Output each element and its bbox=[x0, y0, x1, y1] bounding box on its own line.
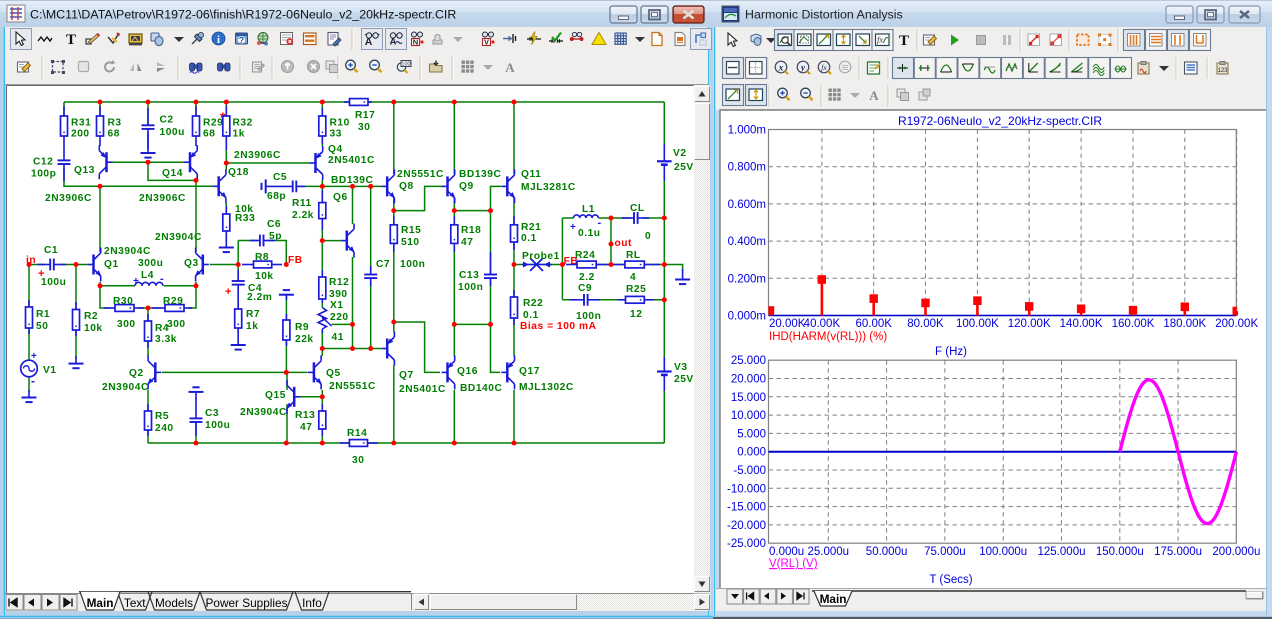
value R24 2.2 bbox=[579, 272, 595, 283]
svg-text:60.00K: 60.00K bbox=[855, 318, 892, 330]
svg-text:Q4: Q4 bbox=[328, 144, 343, 155]
transient x axis title bbox=[929, 574, 972, 586]
wire R22 top bbox=[513, 265, 515, 298]
svg-text:C13: C13 bbox=[459, 270, 479, 281]
wire rail to Q11 collector bbox=[513, 102, 515, 174]
svg-text:22k: 22k bbox=[295, 334, 314, 345]
svg-text:R32: R32 bbox=[233, 118, 253, 129]
svg-text:390: 390 bbox=[329, 289, 348, 300]
resistor R30 bbox=[104, 305, 144, 312]
polarity minus V1 bbox=[31, 374, 36, 388]
svg-text:-: - bbox=[598, 217, 602, 229]
svg-text:175.000u: 175.000u bbox=[1154, 546, 1202, 558]
resistor R14 bbox=[340, 440, 378, 447]
node FB output bbox=[560, 262, 565, 267]
svg-text:F (Hz): F (Hz) bbox=[935, 346, 967, 358]
wire ground column to V3 bbox=[663, 300, 665, 372]
node FB input bbox=[284, 262, 289, 267]
harmonic plot y labels bbox=[728, 125, 766, 323]
label R12 bbox=[329, 277, 349, 288]
value C6 5p bbox=[269, 231, 282, 242]
wire top positive rail right segment bbox=[368, 101, 664, 103]
svg-text:V2: V2 bbox=[673, 148, 687, 159]
ground below R33 bbox=[219, 239, 234, 252]
label C1 bbox=[44, 245, 58, 256]
wire out node to RL bbox=[611, 264, 625, 266]
svg-text:0.000: 0.000 bbox=[737, 447, 766, 459]
wire bottom rail left segment bbox=[148, 442, 349, 444]
resistor R18 bbox=[451, 216, 458, 252]
harmonic plot frame and grid bbox=[769, 130, 1237, 316]
wire Q7 emitter bbox=[393, 322, 395, 332]
label Q6 bbox=[333, 192, 348, 203]
svg-text:Bias = 100 mA: Bias = 100 mA bbox=[520, 321, 597, 332]
left window frame bbox=[0, 0, 713, 619]
value R4 3.3k bbox=[155, 334, 177, 345]
svg-text:C7: C7 bbox=[376, 259, 390, 270]
wire Q3 base to node bbox=[210, 264, 239, 266]
wire V1 to ground bbox=[28, 377, 30, 393]
label C2 bbox=[160, 115, 174, 126]
wire Q2 emitter to R5 bbox=[147, 390, 149, 411]
wire Q6 collector bbox=[352, 186, 354, 224]
text Bias = 100 mA bbox=[520, 321, 597, 332]
svg-text:C9: C9 bbox=[578, 283, 592, 294]
svg-text:Q9: Q9 bbox=[459, 181, 474, 192]
node R15-bottom bbox=[391, 320, 396, 325]
label Q17 bbox=[519, 366, 540, 377]
svg-text:123: 123 bbox=[1217, 68, 1228, 74]
transistor Q4 pnp bbox=[310, 146, 323, 180]
svg-text:100n: 100n bbox=[400, 259, 425, 270]
node ground-mid bbox=[662, 262, 667, 267]
svg-text:V1: V1 bbox=[43, 365, 57, 376]
wire node to R15 bbox=[393, 211, 395, 225]
svg-text:100u: 100u bbox=[205, 420, 230, 431]
node Q6-emitter-b bbox=[350, 346, 355, 351]
svg-text:100n: 100n bbox=[458, 282, 483, 293]
value V2 25V bbox=[674, 162, 694, 173]
left window vertical scrollbar bbox=[694, 85, 710, 593]
node rail-Q17 bbox=[512, 441, 517, 446]
resistor R33 bbox=[223, 206, 230, 240]
svg-text:fx: fx bbox=[821, 63, 827, 72]
svg-text:240: 240 bbox=[155, 423, 174, 434]
ground right of RL bbox=[675, 269, 690, 284]
value R11 2.2k bbox=[292, 210, 314, 221]
node L4-right bbox=[194, 283, 199, 288]
svg-text:-5.000: -5.000 bbox=[733, 465, 766, 477]
svg-text:0.600m: 0.600m bbox=[728, 199, 766, 211]
wire R25 to ground column bbox=[644, 299, 664, 301]
svg-text:Q7: Q7 bbox=[399, 370, 414, 381]
capacitor C3 bbox=[190, 398, 203, 436]
ground below C2 bbox=[141, 133, 156, 158]
svg-text:0.000m: 0.000m bbox=[728, 311, 766, 323]
wire Q18 collector stub bbox=[225, 163, 227, 170]
svg-text:510: 510 bbox=[401, 237, 420, 248]
wire R30 to R29 mid bbox=[138, 307, 161, 309]
label C9 bbox=[578, 283, 592, 294]
svg-text:100.00K: 100.00K bbox=[956, 318, 999, 330]
node ground-C9row bbox=[662, 297, 667, 302]
label CL bbox=[630, 203, 645, 214]
harmonic x axis title bbox=[935, 346, 967, 358]
wire R12 top link bbox=[321, 241, 323, 277]
svg-text:-15.000: -15.000 bbox=[727, 502, 766, 514]
svg-text:T: T bbox=[66, 32, 76, 48]
polarity plus C1 bbox=[38, 268, 45, 280]
value C4 2.2m bbox=[247, 292, 272, 303]
label Q16 bbox=[457, 366, 478, 377]
wire C4 to R7 bbox=[237, 285, 239, 309]
svg-text:T (Secs): T (Secs) bbox=[929, 574, 972, 586]
svg-text:2.2: 2.2 bbox=[579, 272, 595, 283]
wire top positive rail left segment bbox=[64, 101, 350, 103]
resistor R4 bbox=[145, 314, 152, 348]
label Probe1 bbox=[522, 251, 560, 262]
svg-text:100p: 100p bbox=[31, 169, 56, 180]
wire C6 left down to R8 node bbox=[237, 241, 239, 265]
value X1 41 bbox=[332, 332, 344, 343]
model Q3 2N3904C bbox=[155, 232, 202, 243]
svg-text:68: 68 bbox=[203, 129, 215, 140]
node rail-R13 bbox=[320, 441, 325, 446]
svg-text:Q6: Q6 bbox=[333, 192, 348, 203]
harmonic plot x axis line bbox=[769, 315, 1237, 317]
label X1 bbox=[330, 300, 344, 311]
resistor R31 bbox=[61, 106, 68, 150]
left window caption buttons bbox=[610, 6, 704, 23]
svg-text:Main: Main bbox=[87, 596, 114, 610]
inductor L1 bbox=[574, 215, 599, 218]
marker red asterisk bbox=[220, 109, 226, 125]
svg-text:R3: R3 bbox=[108, 118, 122, 129]
svg-text:R33: R33 bbox=[235, 213, 255, 224]
svg-text:R15: R15 bbox=[401, 225, 421, 236]
svg-text:200: 200 bbox=[71, 129, 90, 140]
svg-text:C1: C1 bbox=[44, 245, 58, 256]
svg-text:2N3906C: 2N3906C bbox=[45, 193, 92, 204]
wire Q9 emitter node to Q11 base link bbox=[454, 186, 501, 210]
svg-text:R21: R21 bbox=[521, 222, 541, 233]
node out bbox=[609, 242, 614, 247]
probe Probe1 bbox=[522, 258, 552, 271]
label V1 bbox=[43, 365, 57, 376]
capacitor C9 bbox=[570, 294, 600, 306]
resistor RL bbox=[613, 261, 660, 268]
label V2 bbox=[673, 148, 687, 159]
svg-text:Power Supplies: Power Supplies bbox=[206, 596, 288, 610]
wire C13 node down to Q17 base bbox=[491, 324, 501, 372]
svg-text:160.00K: 160.00K bbox=[1112, 318, 1155, 330]
svg-text:-: - bbox=[160, 273, 164, 285]
svg-text:+: + bbox=[225, 286, 232, 298]
wire Q11 emitter to R21 bbox=[513, 198, 515, 225]
svg-text:R4: R4 bbox=[155, 323, 169, 334]
resistor R17 bbox=[344, 99, 372, 106]
transistor Q15 npn mirrored bbox=[286, 380, 300, 414]
svg-text:A: A bbox=[505, 60, 515, 75]
svg-text:Info: Info bbox=[302, 596, 322, 610]
wire X1 wiper to node bbox=[332, 323, 353, 325]
svg-text:0.1: 0.1 bbox=[521, 233, 537, 244]
transistor Q6 npn bbox=[341, 224, 355, 258]
value R8 10k bbox=[255, 271, 274, 282]
svg-text:X1: X1 bbox=[330, 300, 344, 311]
label R29 bbox=[203, 118, 223, 129]
svg-text:Q8: Q8 bbox=[399, 181, 414, 192]
resistor R12 bbox=[319, 270, 326, 303]
wire V2 to ground column bbox=[663, 171, 665, 300]
node R18-bottom bbox=[452, 322, 457, 327]
node rail-Q16 bbox=[452, 441, 457, 446]
svg-text:i: i bbox=[217, 34, 220, 46]
wire R1 to V1 bbox=[28, 328, 30, 361]
node rail-R10 bbox=[320, 100, 325, 105]
model Q5 2N5551C bbox=[329, 381, 376, 392]
ground above C3 bbox=[189, 387, 204, 399]
value R2 10k bbox=[84, 323, 103, 334]
wire L1 left link bbox=[562, 217, 573, 219]
label R32 bbox=[233, 118, 253, 129]
svg-text:BD139C: BD139C bbox=[459, 169, 501, 180]
page tabs bbox=[79, 592, 411, 610]
svg-text:Q11: Q11 bbox=[521, 169, 541, 180]
svg-text:2.2k: 2.2k bbox=[292, 210, 314, 221]
svg-text:Q2: Q2 bbox=[129, 368, 144, 379]
wire C6 top link bbox=[238, 240, 257, 242]
transient plot y labels bbox=[727, 355, 766, 550]
wire R12 to X1 bbox=[321, 299, 323, 308]
resistor R29 bbox=[193, 106, 200, 146]
svg-text:200.00K: 200.00K bbox=[1215, 318, 1258, 330]
label R2 bbox=[84, 311, 98, 322]
wire R10 to Q4 emitter bbox=[321, 136, 323, 146]
value R13 47 bbox=[300, 422, 312, 433]
svg-text:0.1u: 0.1u bbox=[578, 228, 601, 239]
value R12 390 bbox=[329, 289, 348, 300]
svg-text:300: 300 bbox=[167, 319, 186, 330]
left window titlebar icon bbox=[7, 5, 25, 22]
node C7-bottom bbox=[368, 346, 373, 351]
wire Q1 emitter to L4 row bbox=[99, 282, 101, 286]
label Q18 bbox=[228, 167, 249, 178]
wire C2 node down to Q14 collector link bbox=[148, 162, 196, 180]
node bus-Q1 bbox=[98, 184, 103, 189]
label Q5 bbox=[326, 368, 341, 379]
svg-text:30: 30 bbox=[358, 122, 370, 133]
svg-text:0.800m: 0.800m bbox=[728, 162, 766, 174]
value R17 30 bbox=[358, 122, 370, 133]
transient legend V(RL) bbox=[769, 558, 818, 570]
net label out bbox=[615, 238, 633, 249]
resistor R7 bbox=[235, 302, 242, 334]
harmonic stems bbox=[769, 275, 1237, 315]
ground below V1 bbox=[22, 390, 37, 402]
transistor Q5 npn bbox=[308, 355, 322, 389]
model Q11 MJL3281C bbox=[521, 182, 576, 193]
wire bus to Q3 collector bbox=[195, 186, 197, 252]
label R9 bbox=[295, 322, 309, 333]
wire R15 node to Q16 base bbox=[394, 322, 440, 372]
value C2 100u bbox=[160, 127, 185, 138]
model Q4 2N5401C bbox=[328, 155, 375, 166]
svg-text:out: out bbox=[615, 238, 633, 249]
polarity minus L4 bbox=[160, 273, 164, 285]
svg-text:Q1: Q1 bbox=[104, 259, 119, 270]
svg-text:5.000: 5.000 bbox=[737, 428, 766, 440]
ground above R9 bbox=[279, 290, 294, 300]
resistor R22 bbox=[511, 290, 518, 325]
wire C7 bottom bbox=[370, 278, 372, 348]
svg-text:L4: L4 bbox=[141, 270, 154, 281]
svg-text:R29: R29 bbox=[163, 296, 183, 307]
label R29b bbox=[163, 296, 183, 307]
svg-text:0.400m: 0.400m bbox=[728, 236, 766, 248]
model Q18 2N3906C bbox=[234, 150, 281, 161]
svg-text:2N5551C: 2N5551C bbox=[329, 381, 376, 392]
label C12 bbox=[33, 157, 53, 168]
node mirror-base bbox=[146, 160, 151, 165]
node rail-C2 bbox=[146, 100, 151, 105]
label Q2 bbox=[129, 368, 144, 379]
battery V3 bbox=[657, 372, 672, 375]
svg-text:V(RL) (V): V(RL) (V) bbox=[769, 558, 818, 570]
svg-text:30: 30 bbox=[352, 455, 364, 466]
label R7 bbox=[246, 309, 260, 320]
value R25 12 bbox=[630, 309, 642, 320]
node rail-Q15 bbox=[284, 441, 289, 446]
svg-text:R18: R18 bbox=[461, 225, 481, 236]
svg-text:125.000u: 125.000u bbox=[1038, 546, 1086, 558]
wire Q5 collector bbox=[321, 349, 323, 357]
svg-text:FB: FB bbox=[288, 255, 303, 266]
value R31 200 bbox=[71, 129, 90, 140]
wire X1 bottom to VAS row bbox=[321, 332, 323, 349]
svg-text:N: N bbox=[413, 38, 418, 47]
ground below R7 bbox=[231, 334, 246, 350]
right toolbar row 3 bbox=[716, 84, 1266, 110]
wire node to C4 bbox=[237, 265, 239, 282]
value RL 4 bbox=[630, 272, 636, 283]
harmonic plot x labels bbox=[769, 318, 1258, 330]
svg-text:5p: 5p bbox=[269, 231, 282, 242]
value C7 100n bbox=[400, 259, 425, 270]
wire Q16 collector to rail bbox=[453, 390, 455, 443]
polarity plus L1 bbox=[570, 222, 576, 233]
svg-text:2.2m: 2.2m bbox=[247, 292, 272, 303]
svg-text:25V: 25V bbox=[674, 374, 694, 385]
transistor Q8 npn bbox=[381, 169, 395, 203]
svg-text:Q13: Q13 bbox=[74, 165, 95, 176]
node Q9-emitter bbox=[452, 208, 457, 213]
wire R4 to Q2 collector bbox=[147, 341, 149, 356]
transistor Q16 pnp bbox=[442, 355, 455, 389]
svg-text:RL: RL bbox=[626, 250, 641, 261]
wire V3 to bottom rail bbox=[663, 378, 665, 443]
svg-text:25.000u: 25.000u bbox=[808, 546, 850, 558]
value R33 10k bbox=[235, 204, 254, 215]
value R3 68 bbox=[108, 129, 120, 140]
value C12 100p bbox=[31, 169, 56, 180]
node Q8-emitter bbox=[391, 208, 396, 213]
node ground-top bbox=[662, 216, 667, 221]
svg-text:47: 47 bbox=[461, 237, 473, 248]
wire bottom rail right segment bbox=[368, 442, 665, 444]
left window title text bbox=[30, 8, 456, 22]
label Q7 bbox=[399, 370, 414, 381]
svg-text:C12: C12 bbox=[33, 157, 53, 168]
wire R18 to lower node bbox=[453, 243, 455, 324]
value X1 220 bbox=[330, 312, 349, 323]
wire CL right bbox=[642, 217, 664, 219]
label R8 bbox=[255, 252, 269, 263]
svg-text:80.00K: 80.00K bbox=[907, 318, 944, 330]
wire out node vertical bbox=[610, 218, 612, 265]
node Q6-base bbox=[320, 238, 325, 243]
lead V2 bbox=[663, 144, 665, 181]
label R30 bbox=[113, 296, 133, 307]
source V1 bbox=[21, 360, 38, 377]
wire R9 to Q15 collector node bbox=[285, 340, 287, 372]
label R24 bbox=[575, 250, 595, 261]
wire Q8 emitter to node bbox=[393, 198, 395, 211]
node Q14-collector bbox=[194, 178, 199, 183]
right window caption buttons bbox=[1166, 6, 1260, 23]
svg-text:C2: C2 bbox=[160, 115, 174, 126]
label L1 bbox=[582, 204, 595, 215]
wire L4 row left bbox=[100, 285, 135, 287]
wire R7 to ground bbox=[237, 328, 239, 341]
svg-text:1.000m: 1.000m bbox=[728, 125, 766, 137]
chart title bbox=[898, 114, 1102, 128]
node in bbox=[27, 262, 32, 267]
value R30 300 bbox=[117, 319, 136, 330]
wire C1 to R2 node bbox=[59, 264, 88, 266]
polarity plus C4 bbox=[225, 286, 232, 298]
model Q1 2N3904C bbox=[104, 246, 151, 257]
transient plot frame and grid bbox=[769, 360, 1237, 543]
label Q8 bbox=[399, 181, 414, 192]
value C1 100u bbox=[41, 277, 66, 288]
wire mirror bus bbox=[64, 169, 219, 186]
node rail-Q7 bbox=[391, 441, 396, 446]
svg-text:15.000: 15.000 bbox=[731, 392, 766, 404]
svg-text:Q3: Q3 bbox=[184, 258, 199, 269]
svg-text:1k: 1k bbox=[246, 321, 258, 332]
svg-text:C6: C6 bbox=[267, 219, 281, 230]
svg-text:CL: CL bbox=[630, 203, 645, 214]
label R3 bbox=[108, 118, 122, 129]
wire C9 row left bbox=[562, 299, 581, 301]
label Q3 bbox=[184, 258, 199, 269]
value R1 50 bbox=[36, 321, 48, 332]
label R31 bbox=[71, 118, 91, 129]
label R25 bbox=[626, 284, 646, 295]
svg-text:R30: R30 bbox=[113, 296, 133, 307]
node rail-R29 bbox=[194, 100, 199, 105]
value C13 100n bbox=[458, 282, 483, 293]
model Q15 2N3904C bbox=[240, 407, 287, 418]
model Q9 BD139C bbox=[459, 169, 501, 180]
node out-row bbox=[609, 262, 614, 267]
wire Q9 emitter to node bbox=[453, 198, 455, 211]
wire rail to C2 bbox=[147, 102, 149, 125]
plot panel background bbox=[720, 110, 1266, 588]
inductor L4 bbox=[135, 282, 163, 286]
capacitor C7 bbox=[364, 266, 377, 286]
